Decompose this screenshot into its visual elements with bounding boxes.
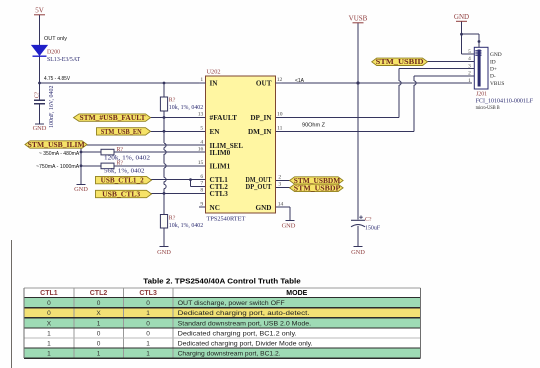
svg-text:13: 13 bbox=[198, 112, 204, 118]
svg-text:micro-USB B: micro-USB B bbox=[476, 106, 501, 111]
svg-text:GND: GND bbox=[282, 223, 296, 230]
svg-text:2: 2 bbox=[468, 71, 471, 77]
svg-text:4: 4 bbox=[468, 56, 471, 62]
svg-text:GND: GND bbox=[454, 13, 469, 21]
svg-text:1: 1 bbox=[146, 351, 150, 358]
svg-text:0: 0 bbox=[97, 300, 101, 307]
svg-text:STM_USB_EN: STM_USB_EN bbox=[101, 129, 142, 136]
svg-text:7: 7 bbox=[200, 181, 203, 187]
svg-text:1: 1 bbox=[47, 341, 51, 348]
svg-text:0: 0 bbox=[97, 341, 101, 348]
svg-text:3: 3 bbox=[278, 182, 281, 188]
svg-text:TPS2540RTET: TPS2540RTET bbox=[207, 216, 246, 223]
svg-text:120k, 1%, 0402: 120k, 1%, 0402 bbox=[104, 156, 150, 162]
svg-text:NC: NC bbox=[210, 204, 220, 212]
svg-text:9: 9 bbox=[200, 201, 203, 207]
svg-text:1: 1 bbox=[97, 351, 101, 358]
svg-text:16: 16 bbox=[198, 147, 204, 153]
svg-text:56k, 1%, 0402: 56k, 1%, 0402 bbox=[104, 168, 145, 174]
svg-text:Table 2. TPS2540/40A Control T: Table 2. TPS2540/40A Control Truth Table bbox=[143, 276, 301, 285]
svg-text:10k, 1%, 0402: 10k, 1%, 0402 bbox=[169, 223, 203, 229]
svg-text:J201: J201 bbox=[476, 92, 487, 98]
svg-text:USB_CTL1_2: USB_CTL1_2 bbox=[101, 178, 145, 185]
svg-text:2: 2 bbox=[278, 175, 281, 181]
svg-text:DM_IN: DM_IN bbox=[248, 128, 272, 136]
svg-text:90Ohm Z: 90Ohm Z bbox=[302, 123, 326, 129]
svg-text:5V: 5V bbox=[35, 7, 44, 15]
svg-text:ILIM1: ILIM1 bbox=[210, 162, 231, 170]
svg-text:ILIM0: ILIM0 bbox=[210, 149, 231, 157]
svg-text:8: 8 bbox=[200, 188, 203, 194]
svg-text:X: X bbox=[96, 310, 101, 317]
svg-text:R?: R? bbox=[169, 216, 176, 222]
svg-text:STM_USBDP: STM_USBDP bbox=[294, 185, 341, 192]
svg-text:STM_USBID: STM_USBID bbox=[376, 59, 424, 66]
svg-text:VUSB: VUSB bbox=[349, 15, 368, 23]
svg-text:5: 5 bbox=[200, 126, 203, 132]
svg-text:5: 5 bbox=[468, 49, 471, 55]
svg-text:1: 1 bbox=[146, 310, 150, 317]
svg-text:OUT only: OUT only bbox=[44, 36, 67, 42]
svg-text:GND: GND bbox=[490, 52, 502, 58]
svg-text:15: 15 bbox=[198, 160, 204, 166]
svg-text:Dedicated charging port, Divid: Dedicated charging port, Divider Mode on… bbox=[178, 341, 313, 348]
svg-text:STM_USB_ILIM: STM_USB_ILIM bbox=[28, 142, 86, 149]
svg-text:Dedicated charging port, auto-: Dedicated charging port, auto-detect. bbox=[178, 310, 310, 317]
svg-text:GND: GND bbox=[33, 125, 47, 132]
svg-text:CTL1: CTL1 bbox=[40, 290, 58, 297]
svg-text:12: 12 bbox=[277, 77, 283, 83]
svg-text:0: 0 bbox=[146, 300, 150, 307]
svg-text:~ 350mA - 480mA: ~ 350mA - 480mA bbox=[39, 151, 80, 157]
svg-text:#FAULT: #FAULT bbox=[210, 114, 238, 122]
svg-text:~750mA - 1000mA: ~750mA - 1000mA bbox=[36, 164, 80, 170]
svg-text:1: 1 bbox=[468, 78, 471, 84]
svg-text:R?: R? bbox=[117, 161, 124, 167]
svg-text:1: 1 bbox=[97, 320, 101, 327]
svg-text:EN: EN bbox=[210, 128, 221, 136]
svg-text:10k, 1%, 0402: 10k, 1%, 0402 bbox=[169, 105, 203, 111]
svg-text:Standard downstream port, USB: Standard downstream port, USB 2.0 Mode. bbox=[178, 320, 312, 327]
svg-text:1: 1 bbox=[47, 351, 51, 358]
svg-text:C?: C? bbox=[34, 91, 40, 98]
svg-text:IN: IN bbox=[210, 80, 219, 88]
svg-text:6: 6 bbox=[200, 174, 203, 180]
svg-text:X: X bbox=[47, 320, 52, 327]
svg-text:Dedicated charging port, BC1.2: Dedicated charging port, BC1.2 only. bbox=[178, 330, 297, 337]
svg-text:D-: D- bbox=[490, 74, 496, 80]
svg-text:STM_USBDM: STM_USBDM bbox=[294, 178, 341, 185]
svg-text:14: 14 bbox=[278, 201, 284, 207]
svg-text:D+: D+ bbox=[490, 67, 497, 73]
svg-text:0: 0 bbox=[146, 330, 150, 337]
svg-text:R?: R? bbox=[169, 98, 176, 104]
svg-text:CTL2: CTL2 bbox=[90, 290, 108, 297]
svg-text:OUT: OUT bbox=[256, 80, 272, 88]
svg-text:GND: GND bbox=[256, 204, 272, 212]
svg-text:U202: U202 bbox=[207, 69, 221, 76]
svg-text:0: 0 bbox=[47, 300, 51, 307]
svg-text:4.75 - 4.85V: 4.75 - 4.85V bbox=[44, 76, 70, 82]
svg-text:D200: D200 bbox=[47, 50, 60, 56]
svg-text:3: 3 bbox=[468, 63, 471, 69]
svg-text:C?: C? bbox=[365, 217, 372, 223]
svg-text:<1A: <1A bbox=[295, 78, 304, 84]
svg-text:STM_#USB_FAULT: STM_#USB_FAULT bbox=[80, 115, 147, 122]
svg-text:R?: R? bbox=[117, 147, 124, 153]
svg-text:1: 1 bbox=[47, 330, 51, 337]
svg-text:1: 1 bbox=[146, 341, 150, 348]
svg-text:1: 1 bbox=[200, 77, 203, 83]
svg-text:0: 0 bbox=[146, 320, 150, 327]
svg-text:FCI_10104110-0001LF: FCI_10104110-0001LF bbox=[476, 99, 534, 105]
svg-text:GND: GND bbox=[351, 249, 365, 256]
svg-text:Charging downstream port, BC1.: Charging downstream port, BC1.2. bbox=[178, 351, 281, 358]
svg-text:100nF, 16V, 0402: 100nF, 16V, 0402 bbox=[49, 85, 55, 128]
svg-text:0: 0 bbox=[47, 310, 51, 317]
svg-text:11: 11 bbox=[277, 126, 283, 132]
svg-text:4: 4 bbox=[200, 139, 203, 145]
svg-text:SL13-E3/5AT: SL13-E3/5AT bbox=[47, 57, 80, 63]
svg-text:CTL3: CTL3 bbox=[139, 290, 157, 297]
svg-text:10: 10 bbox=[277, 112, 283, 118]
svg-text:USB_CTL3: USB_CTL3 bbox=[102, 191, 141, 198]
svg-text:GND: GND bbox=[157, 249, 171, 256]
svg-text:DP_OUT: DP_OUT bbox=[246, 183, 272, 191]
svg-text:DP_IN: DP_IN bbox=[250, 114, 272, 122]
svg-text:ID: ID bbox=[490, 59, 496, 65]
svg-text:CTL3: CTL3 bbox=[210, 190, 229, 198]
svg-text:150uF: 150uF bbox=[365, 226, 381, 232]
svg-text:VBUS: VBUS bbox=[490, 81, 504, 87]
svg-text:MODE: MODE bbox=[286, 290, 307, 297]
svg-text:GND: GND bbox=[74, 186, 88, 193]
svg-text:OUT discharge, power switch OF: OUT discharge, power switch OFF bbox=[178, 300, 285, 307]
svg-text:0: 0 bbox=[97, 330, 101, 337]
